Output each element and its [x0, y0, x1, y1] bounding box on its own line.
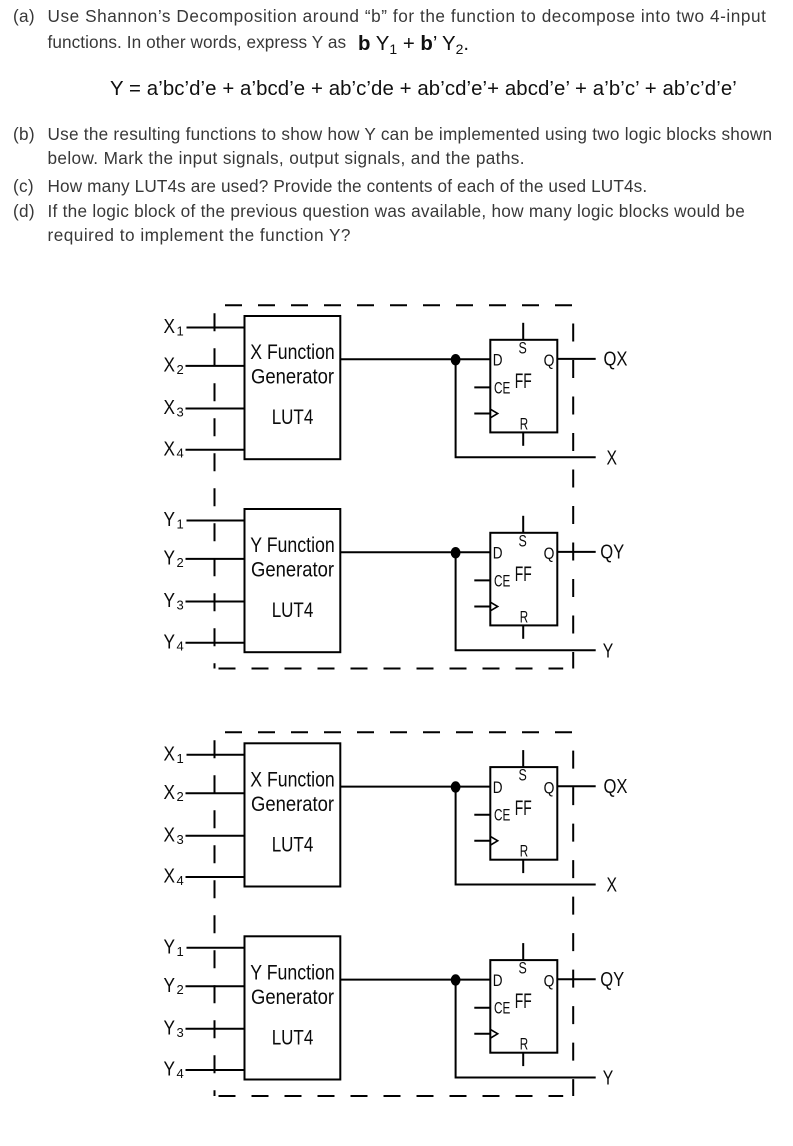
svg-text:Y: Y [164, 631, 176, 653]
svg-text:R: R [520, 1036, 528, 1054]
svg-text:FF: FF [515, 563, 532, 586]
svg-text:D: D [493, 352, 503, 370]
FF clock edge triangle (X cell, diagram 1) [491, 409, 498, 417]
dashed logic-block boundary (logic block diagram 1) [215, 305, 574, 668]
svg-text:QY: QY [600, 969, 624, 991]
svg-text:QX: QX [604, 349, 628, 371]
FF clock pin stub (Y cell, diagram 2) [474, 1033, 490, 1035]
svg-text:X: X [607, 875, 618, 897]
FF clock edge triangle (Y cell, diagram 1) [491, 602, 498, 610]
svg-text:LUT4: LUT4 [272, 833, 314, 856]
wire: input X3 to LUT4 (diagram 2) [186, 835, 246, 837]
svg-text:R: R [520, 415, 528, 433]
svg-text:Y: Y [164, 936, 176, 958]
svg-text:LUT4: LUT4 [272, 599, 314, 622]
flip-flop FF box (Y cell, diagram 1) [490, 533, 557, 626]
wire: input X4 to LUT4 (diagram 2) [186, 876, 246, 878]
svg-text:R: R [520, 608, 528, 626]
LUT4 X function generator box (diagram 1) [245, 316, 341, 459]
svg-text:LUT4: LUT4 [272, 1026, 314, 1049]
wire: input Y2 to LUT4 (diagram 2) [186, 985, 246, 987]
wire: feedback X from junction (diagram 2) [456, 787, 596, 885]
FF S pin stub (X cell, diagram 1) [522, 323, 524, 340]
FF R pin stub (Y cell, diagram 1) [522, 625, 524, 638]
wire: input Y3 to LUT4 (diagram 2) [186, 1028, 246, 1030]
wire: input Y2 to LUT4 (diagram 1) [186, 558, 246, 560]
svg-text:X: X [164, 397, 176, 419]
wire: input Y4 to LUT4 (diagram 1) [186, 642, 246, 644]
wire: input X3 to LUT4 (diagram 1) [186, 408, 246, 410]
LUT4 Y label text (diagram 2) [250, 961, 335, 1049]
wire: input X2 to LUT4 (diagram 1) [186, 365, 246, 367]
svg-text:Y: Y [164, 548, 176, 570]
wire: LUT4 output to FF D input (diagram 2) [340, 979, 490, 981]
wire: FF Q output QY (diagram 2) [557, 978, 595, 980]
FF S pin stub (Y cell, diagram 2) [522, 943, 524, 960]
svg-text:3: 3 [177, 405, 184, 420]
svg-text:CE: CE [494, 572, 510, 590]
svg-text:FF: FF [515, 370, 532, 393]
svg-text:S: S [519, 532, 527, 550]
svg-text:Y: Y [164, 1059, 176, 1081]
svg-text:D: D [493, 779, 503, 797]
wire: LUT4 output to FF D input (diagram 1) [340, 551, 490, 553]
junction node on X LUT output (diagram 1) [451, 354, 461, 365]
FF R pin stub (Y cell, diagram 2) [522, 1053, 524, 1066]
wire: input X1 to LUT4 (diagram 2) [187, 754, 246, 756]
junction node on X LUT output (diagram 2) [451, 781, 461, 792]
wire: input X1 to LUT4 (diagram 1) [187, 327, 246, 329]
svg-text:Y: Y [603, 640, 614, 662]
svg-text:S: S [519, 960, 527, 978]
wire: FF Q output QY (diagram 1) [557, 551, 595, 553]
svg-text:Generator: Generator [251, 986, 334, 1009]
svg-text:D: D [493, 545, 503, 563]
svg-text:CE: CE [494, 379, 510, 397]
svg-text:1: 1 [177, 944, 184, 959]
FF clock edge triangle (X cell, diagram 2) [491, 837, 498, 845]
FF clock pin stub (X cell, diagram 2) [474, 840, 490, 842]
svg-text:X: X [164, 782, 176, 804]
svg-text:3: 3 [177, 1025, 184, 1040]
svg-text:Y Function: Y Function [250, 534, 335, 557]
svg-text:1: 1 [177, 324, 184, 339]
svg-text:2: 2 [177, 362, 184, 377]
LUT4 X function generator box (diagram 2) [245, 743, 341, 886]
svg-text:Generator: Generator [251, 559, 334, 582]
FF clock edge triangle (Y cell, diagram 2) [491, 1030, 498, 1038]
svg-text:Q: Q [544, 779, 555, 797]
flip-flop FF box (Y cell, diagram 2) [490, 960, 557, 1053]
FF clock pin stub (X cell, diagram 1) [474, 413, 490, 415]
FF clock pin stub (Y cell, diagram 1) [474, 606, 490, 608]
wire: feedback Y from junction (diagram 2) [456, 980, 596, 1078]
svg-text:D: D [493, 972, 503, 990]
svg-text:X: X [164, 866, 176, 888]
FF CE pin stub (Y cell, diagram 2) [474, 1007, 490, 1009]
wire: input X2 to LUT4 (diagram 2) [186, 792, 246, 794]
flip-flop FF box (X cell, diagram 1) [490, 340, 557, 433]
svg-text:CE: CE [494, 807, 510, 825]
wire: input X4 to LUT4 (diagram 1) [186, 449, 246, 451]
svg-text:X: X [164, 824, 176, 846]
wire: LUT4 output to FF D input (diagram 2) [340, 786, 490, 788]
FF CE pin stub (X cell, diagram 1) [474, 386, 490, 388]
svg-text:Q: Q [544, 972, 555, 990]
svg-text:X: X [607, 447, 618, 469]
svg-text:LUT4: LUT4 [272, 406, 314, 429]
svg-text:2: 2 [177, 982, 184, 997]
svg-text:1: 1 [177, 751, 184, 766]
svg-text:4: 4 [177, 446, 184, 461]
svg-text:X: X [164, 743, 176, 765]
svg-text:FF: FF [515, 990, 532, 1013]
svg-text:Q: Q [544, 352, 555, 370]
svg-text:Q: Q [544, 545, 555, 563]
LUT4 Y label text (diagram 1) [250, 534, 335, 622]
LUT4 Y function generator box (diagram 2) [245, 936, 341, 1079]
junction node on Y LUT output (diagram 1) [451, 547, 461, 558]
svg-text:2: 2 [177, 555, 184, 570]
svg-text:Generator: Generator [251, 793, 334, 816]
svg-text:S: S [519, 339, 527, 357]
svg-text:Y: Y [164, 975, 176, 997]
FF CE pin stub (Y cell, diagram 1) [474, 579, 490, 581]
svg-text:4: 4 [177, 873, 184, 888]
FF S pin stub (X cell, diagram 2) [522, 750, 524, 767]
svg-text:X Function: X Function [250, 768, 335, 791]
wire: LUT4 output to FF D input (diagram 1) [340, 358, 490, 360]
svg-text:X: X [164, 355, 176, 377]
LUT4 X label text (diagram 2) [250, 768, 335, 856]
svg-text:Y: Y [603, 1068, 614, 1090]
wire: feedback X from junction (diagram 1) [456, 360, 596, 458]
svg-text:Y: Y [164, 590, 176, 612]
svg-text:QX: QX [604, 776, 628, 798]
svg-text:Generator: Generator [251, 366, 334, 389]
FF R pin stub (X cell, diagram 1) [522, 432, 524, 445]
wire: input Y1 to LUT4 (diagram 1) [187, 520, 246, 522]
svg-text:CE: CE [494, 1000, 510, 1018]
svg-text:Y: Y [164, 509, 176, 531]
wire: input Y1 to LUT4 (diagram 2) [187, 947, 246, 949]
wire: input Y3 to LUT4 (diagram 1) [186, 601, 246, 603]
svg-text:R: R [520, 843, 528, 861]
svg-text:X Function: X Function [250, 341, 335, 364]
wire: input Y4 to LUT4 (diagram 2) [186, 1069, 246, 1071]
svg-text:2: 2 [177, 789, 184, 804]
svg-text:X: X [164, 438, 176, 460]
svg-text:4: 4 [177, 639, 184, 654]
FF S pin stub (Y cell, diagram 1) [522, 516, 524, 533]
junction node on Y LUT output (diagram 2) [451, 974, 461, 985]
FF CE pin stub (X cell, diagram 2) [474, 814, 490, 816]
dashed logic-block boundary (logic block diagram 2) [215, 732, 574, 1096]
svg-text:X: X [164, 316, 176, 338]
svg-text:3: 3 [177, 598, 184, 613]
svg-text:Y: Y [164, 1017, 176, 1039]
wire: FF Q output QX (diagram 2) [557, 785, 595, 787]
wire: feedback Y from junction (diagram 1) [456, 553, 596, 651]
svg-text:3: 3 [177, 832, 184, 847]
svg-text:Y Function: Y Function [250, 961, 335, 984]
LUT4 Y function generator box (diagram 1) [245, 509, 341, 652]
flip-flop FF box (X cell, diagram 2) [490, 767, 557, 860]
svg-text:QY: QY [600, 542, 624, 564]
svg-text:FF: FF [515, 797, 532, 820]
svg-text:4: 4 [177, 1066, 184, 1081]
svg-text:1: 1 [177, 517, 184, 532]
LUT4 X label text (diagram 1) [250, 341, 335, 429]
svg-text:S: S [519, 767, 527, 785]
wire: FF Q output QX (diagram 1) [557, 358, 595, 360]
FF R pin stub (X cell, diagram 2) [522, 860, 524, 873]
